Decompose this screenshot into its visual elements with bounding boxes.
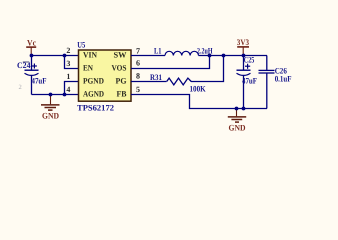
svg-text:1: 1 <box>66 72 70 81</box>
wire Vc to VIN pin 2 <box>32 55 79 57</box>
capacitor C24 <box>25 70 39 75</box>
svg-text:VOS: VOS <box>112 64 127 73</box>
svg-text:0.1uF: 0.1uF <box>275 74 292 83</box>
capacitor C26 bottom lead <box>266 73 268 109</box>
svg-text:SW: SW <box>114 51 128 60</box>
svg-text:3: 3 <box>66 59 70 68</box>
power port Vc <box>26 47 36 55</box>
svg-text:100K: 100K <box>190 84 207 93</box>
wire PGND <box>65 82 79 95</box>
svg-text:FB: FB <box>117 90 128 99</box>
power port 3V3 <box>237 47 249 56</box>
plus sign C25 <box>245 64 250 69</box>
svg-text:47uF: 47uF <box>242 76 257 85</box>
wire C24 bottom lead <box>31 76 33 95</box>
svg-text:Vc: Vc <box>27 37 36 47</box>
wire AGND horizontal <box>32 94 79 96</box>
svg-text:4: 4 <box>66 85 70 94</box>
node junction dots right <box>208 54 212 58</box>
svg-text:L1: L1 <box>154 46 162 55</box>
wire C24 top lead <box>31 56 33 71</box>
capacitor C25 bottom lead <box>243 76 245 109</box>
svg-text:3V3: 3V3 <box>237 37 249 47</box>
resistor R31 <box>167 78 191 85</box>
svg-text:VIN: VIN <box>83 51 97 60</box>
wire output net top <box>199 55 268 57</box>
svg-text:PGND: PGND <box>83 77 104 86</box>
capacitor C26 top lead <box>266 56 268 71</box>
capacitor C25 <box>237 70 251 75</box>
svg-text:PG: PG <box>116 77 128 86</box>
ground GND left <box>41 95 60 111</box>
wire FB down to bottom net <box>131 95 267 109</box>
capacitor C26 <box>259 70 275 73</box>
wire VOS up to output <box>131 56 210 69</box>
svg-text:GND: GND <box>42 111 59 121</box>
svg-text:EN: EN <box>83 64 93 73</box>
wire EN vertical from VIN <box>65 56 79 69</box>
svg-text:R31: R31 <box>150 73 162 82</box>
svg-text:GND: GND <box>229 123 246 133</box>
wire resistor up to output <box>191 56 224 82</box>
svg-text:2: 2 <box>19 84 22 91</box>
IC U5 TPS62172 body <box>79 50 132 101</box>
svg-text:6: 6 <box>136 59 140 68</box>
svg-text:U5: U5 <box>77 40 85 49</box>
svg-text:47uF: 47uF <box>32 76 47 85</box>
wire PG to resistor <box>131 81 167 83</box>
node junction dots left <box>30 54 34 58</box>
wire SW to inductor <box>131 55 165 57</box>
capacitor C25 top lead <box>243 56 245 71</box>
svg-text:7: 7 <box>136 47 140 56</box>
plus sign C24 <box>32 64 37 69</box>
inductor L1 <box>165 51 199 55</box>
svg-text:TPS62172: TPS62172 <box>77 104 114 113</box>
svg-text:5: 5 <box>136 85 140 94</box>
svg-text:C25: C25 <box>244 55 255 64</box>
svg-text:2: 2 <box>66 46 70 55</box>
artifact overline above C24 <box>23 61 29 63</box>
svg-text:8: 8 <box>136 72 140 81</box>
ground GND right <box>228 109 246 123</box>
svg-text:AGND: AGND <box>83 90 104 99</box>
